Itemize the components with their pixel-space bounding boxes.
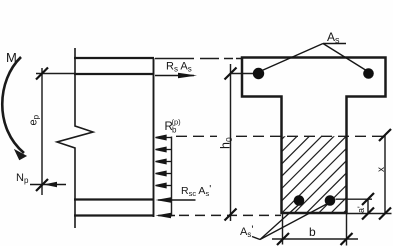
svg-text:h0: h0 [219,137,235,149]
svg-text:Rs As: Rs As [166,61,192,74]
rebar As' right [325,195,336,206]
b extension right [346,214,348,246]
As leader right [323,44,366,71]
neutral axis dashed line [176,135,386,137]
Rs As arrowhead [178,73,197,79]
rebar As left [253,68,264,79]
bottom dashed line [179,214,281,216]
svg-text:As: As [327,30,340,45]
load arrow 4 [163,173,172,175]
member right edge [153,58,155,217]
hatch compression zone [193,118,393,228]
svg-text:ep: ep [28,114,41,125]
ep extension line [36,73,75,75]
svg-text:b: b [172,126,177,135]
T-section outline [242,58,386,214]
b extension left [282,214,284,245]
rebar As right [363,68,374,79]
load arrow 3 [163,161,172,163]
tick bottom of ep [36,179,48,191]
tick b right [341,233,353,245]
ep dimension line [41,68,43,195]
line bar to a' dim [336,198,373,200]
tick top of h0 [225,68,237,80]
x dimension line [384,135,386,214]
load arrow 1 [163,137,172,139]
tick x top [379,129,391,141]
Np arrowhead [44,182,58,187]
moment arc [2,57,24,153]
a' dimension line [367,199,369,214]
svg-text:Rsc As': Rsc As' [181,183,211,198]
tick b left [277,233,289,245]
b dimension line [272,238,358,240]
As leader left [262,44,323,71]
bottom flange line 1 [74,198,154,200]
Rsc As' arrow [158,199,196,201]
top flange line 2 [74,73,154,75]
rebar As' left [294,195,305,206]
tick bottom of h0 [225,209,237,221]
Rs As arrow shaft [155,75,194,77]
svg-text:Np: Np [16,172,29,185]
line h0 to left bar [231,73,255,75]
dashed top-fiber line [155,58,243,60]
tick a' bottom [362,208,374,220]
member left edge with break [57,48,93,228]
moment arc arrowhead [15,150,26,160]
svg-text:As': As' [240,224,253,239]
top flange line 1 [74,57,154,59]
svg-text:b: b [309,225,316,239]
As' leader to right bar [260,203,330,240]
load arrow 2 [163,149,172,151]
svg-text:x: x [376,167,387,172]
load tails line [171,137,173,217]
tick x bottom [379,208,391,220]
As' leader stub [252,237,260,240]
bottom force arrow [158,215,175,217]
h0 dimension line [230,64,232,221]
svg-text:a': a' [356,206,366,213]
Np arrow shaft [30,184,66,186]
As underline [323,43,346,45]
tick a' top [362,193,374,205]
bottom edge extension right [347,213,392,215]
load arrow 5 [163,185,172,187]
As' leader to left bar [260,204,300,240]
bottom flange line 2 [74,214,154,216]
tick top of ep [36,68,48,80]
